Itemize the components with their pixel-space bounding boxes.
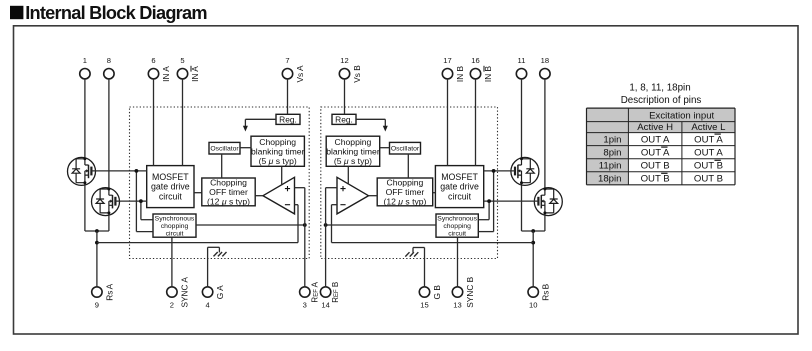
svg-text:Vs B: Vs B <box>352 65 362 83</box>
wire: pin 6 (IN A) to gate drive A <box>153 79 155 166</box>
junction: Q3 gate tap <box>492 169 496 173</box>
svg-text:OUT B: OUT B <box>641 161 670 172</box>
svg-text:OFF timer: OFF timer <box>386 187 425 197</box>
svg-text:Excitation input: Excitation input <box>649 110 714 121</box>
wire: pin 7 (Vs A) to Reg A <box>287 79 289 114</box>
svg-text:gate drive: gate drive <box>440 182 479 192</box>
dashed block B outline <box>321 107 498 259</box>
wire: Q4 source to rail B <box>544 216 546 231</box>
junction: rail B center <box>531 229 535 233</box>
svg-text:Oscillator: Oscillator <box>391 146 420 153</box>
pin 5 (top terminal, IN A) <box>177 56 200 82</box>
pin 15 (bottom terminal, G B) <box>419 285 442 310</box>
wire: oscillator B to blanking timer B <box>380 147 390 149</box>
svg-text:SYNC B: SYNC B <box>465 276 475 307</box>
svg-text:(5 μ s typ): (5 μ s typ) <box>259 156 297 166</box>
wire: sync chopping A to pin 2 (SYNC A) <box>171 237 173 287</box>
block: Chopping OFF timer (A) value 12 us typ <box>202 177 255 206</box>
wire: comparator U1 minus input to Rs A sense <box>295 205 299 243</box>
block: MOSFET gate drive circuit (B) <box>435 166 483 208</box>
wire: comparator U2 plus input to pin 14 (REF B) <box>326 188 337 287</box>
wire: gate drive B to Q4 gate <box>484 200 539 202</box>
svg-text:8pin: 8pin <box>603 148 621 159</box>
wire: oscillator A to blanking timer A <box>240 147 251 149</box>
pin 18 (top terminal) <box>540 56 550 79</box>
junction: REF B / sync B <box>324 223 328 227</box>
wire: Q4 gate line to sync chopping B <box>478 201 489 220</box>
wire: comparator U1 plus input to pin 3 (REF A) <box>295 188 305 287</box>
block: Chopping blanking timer (B) value 5 us typ <box>326 136 380 166</box>
svg-text:Vs A: Vs A <box>295 65 305 83</box>
svg-text:3: 3 <box>303 301 307 310</box>
pin 4 (bottom terminal, G A) <box>202 285 225 310</box>
pin 7 (top terminal, Vs A) <box>282 56 305 83</box>
wire: gate drive B to OFF timer B <box>433 192 436 194</box>
svg-text:MOSFET: MOSFET <box>152 172 189 182</box>
wire: sync chopping A to REF A node <box>196 224 305 226</box>
wire: blanking timer B to comparator U2 <box>347 166 349 184</box>
svg-text:MOSFET: MOSFET <box>441 172 478 182</box>
svg-text:18pin: 18pin <box>598 174 621 185</box>
pin 8 (top terminal) <box>104 56 114 79</box>
block: Reg. (A regulator) <box>276 114 300 124</box>
wire: sync chopping B to REF B node <box>326 224 436 226</box>
pin 14 (bottom terminal, REF B) <box>320 282 340 310</box>
svg-text:1pin: 1pin <box>603 135 621 146</box>
svg-text:(12 μ s typ): (12 μ s typ) <box>207 196 250 206</box>
wire: pin 17 (IN B) to gate drive B <box>447 79 449 166</box>
wire: comparator U2 minus input to Rs B sense <box>332 205 338 243</box>
svg-text:circuit: circuit <box>448 230 466 237</box>
wire: pin 8 to Q2 drain <box>108 79 110 188</box>
wire: Q2 source to rail A <box>108 216 110 231</box>
svg-text:7: 7 <box>285 56 289 65</box>
wire: OFF timer A to comparator U1 output <box>255 195 263 197</box>
junction: REF A / sync A <box>303 223 307 227</box>
svg-text:Oscillator: Oscillator <box>210 146 239 153</box>
pin 6 (top terminal, IN A) <box>148 56 171 82</box>
pin 13 (bottom terminal, SYNC B) <box>452 276 475 309</box>
svg-text:Chopping: Chopping <box>335 137 372 147</box>
svg-text:chopping: chopping <box>443 223 471 230</box>
wire: rail A to pin 9 (Rs A) <box>96 231 98 287</box>
wire: blanking timer A to comparator U1 <box>281 166 283 185</box>
wire: Q3 gate line to sync chopping B <box>478 171 493 232</box>
svg-text:circuit: circuit <box>166 230 184 237</box>
svg-text:(5 μ s typ): (5 μ s typ) <box>334 156 372 166</box>
wire: gate drive A to Q2 gate <box>115 200 146 202</box>
wire: Rs A sense feedback <box>97 242 298 244</box>
svg-text:OUT A: OUT A <box>694 148 723 159</box>
junction: rail A center <box>95 229 99 233</box>
title: Internal Block Diagram <box>10 3 207 23</box>
pin 9 (bottom terminal, Rs A) <box>92 283 115 309</box>
wire: Q2 gate line to sync chopping A <box>141 201 153 220</box>
pin 12 (top terminal, Vs B) <box>339 56 362 83</box>
svg-text:10: 10 <box>529 301 537 310</box>
pin 2 (bottom terminal, SYNC A) <box>167 277 190 310</box>
wire: oscillator B to OFF timer B <box>407 154 409 178</box>
ground symbol (A) <box>214 247 227 256</box>
svg-text:OUT B: OUT B <box>641 174 670 185</box>
wire: pin 5 (IN A bar) to gate drive A <box>182 79 184 166</box>
svg-text:1: 1 <box>83 56 87 65</box>
svg-text:G B: G B <box>432 285 442 300</box>
junction: Q2 gate tap <box>139 199 143 203</box>
svg-text:gate drive: gate drive <box>151 182 190 192</box>
svg-text:OUT B: OUT B <box>694 161 723 172</box>
comparator U2 (current sense, B) <box>337 177 369 214</box>
pin 16 (top terminal, IN B) <box>470 56 493 82</box>
svg-text:Internal Block Diagram: Internal Block Diagram <box>25 3 207 23</box>
svg-text:OUT A: OUT A <box>641 148 670 159</box>
dashed block A outline <box>130 107 310 259</box>
wire: Reg B output with arrow <box>356 119 388 131</box>
svg-text:OUT B: OUT B <box>694 174 723 185</box>
svg-text:RsA: RsA <box>104 283 114 300</box>
wire: Reg A output with arrow <box>243 119 276 131</box>
pin 17 (top terminal, IN B) <box>442 56 465 82</box>
wire: pin 1 to Q1 drain <box>84 79 86 157</box>
block: Chopping blanking timer (A) value 5 us typ <box>251 136 305 166</box>
pin 3 (bottom terminal, REF A) <box>300 281 320 309</box>
junction: Rs A sense tap <box>95 241 99 245</box>
pin description table header note <box>621 83 702 106</box>
block: Oscillator (A) <box>209 142 240 154</box>
svg-text:blanking timer: blanking timer <box>251 146 305 156</box>
wire: gate drive B to Q3 gate <box>484 170 515 172</box>
svg-text:17: 17 <box>443 56 451 65</box>
pin description table <box>587 108 736 185</box>
wire: Q1 gate line to sync chopping A <box>136 171 153 232</box>
svg-text:14: 14 <box>321 301 329 310</box>
svg-text:12: 12 <box>340 56 348 65</box>
svg-text:11pin: 11pin <box>599 161 622 172</box>
block: MOSFET gate drive circuit (A) <box>147 166 194 208</box>
svg-text:1, 8, 11, 18pin: 1, 8, 11, 18pin <box>629 83 690 94</box>
pin 10 (bottom terminal, Rs B) <box>528 283 551 309</box>
junction: Q1 gate tap <box>135 169 139 173</box>
power MOSFET Q4 (OUT B low side) <box>534 188 562 216</box>
svg-text:Reg.: Reg. <box>335 114 353 124</box>
svg-text:2: 2 <box>170 301 174 310</box>
svg-text:Chopping: Chopping <box>210 177 247 187</box>
wire: OFF timer B to comparator U2 output <box>369 195 378 197</box>
svg-text:OUT A: OUT A <box>641 135 670 146</box>
comparator U1 (current sense, A) <box>263 177 295 214</box>
svg-text:5: 5 <box>180 56 184 65</box>
wire: pin 15 (G B) to ground <box>413 248 425 287</box>
wire: pin 4 (G A) to ground <box>208 247 220 286</box>
wire: sync chopping B to pin 13 (SYNC B) <box>457 237 459 287</box>
svg-text:SYNC A: SYNC A <box>179 277 189 308</box>
svg-text:11: 11 <box>518 56 526 65</box>
wire: source rail A <box>85 230 109 232</box>
svg-text:18: 18 <box>541 56 549 65</box>
power MOSFET Q2 (OUT A low side) <box>92 188 120 216</box>
wire: gate drive A to OFF timer A <box>194 192 202 194</box>
svg-text:(12 μ s typ): (12 μ s typ) <box>383 196 426 206</box>
junction: Q4 gate tap <box>487 199 491 203</box>
power MOSFET Q3 (OUT B high side) <box>511 157 539 185</box>
wire: Q1 source to rail A <box>84 185 86 231</box>
svg-text:IN B: IN B <box>455 65 465 82</box>
svg-text:blanking timer: blanking timer <box>326 146 380 156</box>
power MOSFET Q1 (OUT A high side) <box>68 157 96 185</box>
wire: gate drive A to Q1 gate <box>91 170 146 172</box>
svg-text:Description of pins: Description of pins <box>621 95 702 106</box>
svg-text:OUT A: OUT A <box>694 135 723 146</box>
wire: rail B to pin 10 (Rs B) <box>532 231 534 287</box>
svg-text:circuit: circuit <box>448 191 472 201</box>
svg-text:RsB: RsB <box>541 283 551 300</box>
svg-text:Chopping: Chopping <box>387 177 424 187</box>
svg-text:G A: G A <box>215 285 225 299</box>
block: Chopping OFF timer (B) value 12 us typ <box>377 177 433 206</box>
svg-text:IN A: IN A <box>161 66 171 82</box>
pin 11 (top terminal) <box>516 56 526 79</box>
svg-text:15: 15 <box>420 301 428 310</box>
block: Reg. (B regulator) <box>332 114 356 124</box>
wire: pin 18 to Q4 drain <box>544 79 546 188</box>
svg-text:4: 4 <box>205 301 209 310</box>
svg-text:OFF timer: OFF timer <box>209 187 248 197</box>
wire: Q3 source to rail B <box>521 185 523 231</box>
svg-text:Active H: Active H <box>637 122 673 133</box>
svg-text:Synchronous: Synchronous <box>155 216 195 223</box>
svg-text:Chopping: Chopping <box>259 137 296 147</box>
svg-text:13: 13 <box>453 301 461 310</box>
wire: Rs B sense feedback <box>332 242 534 244</box>
svg-text:Active L: Active L <box>691 122 726 133</box>
svg-text:8: 8 <box>107 56 111 65</box>
pin 1 (top terminal) <box>80 56 90 79</box>
block: Oscillator (B) <box>390 142 421 154</box>
ground symbol (B) <box>405 248 418 257</box>
junction: Rs B sense tap <box>531 241 535 245</box>
block: Synchronous chopping circuit (B) <box>436 214 478 237</box>
svg-text:circuit: circuit <box>159 191 183 201</box>
svg-text:6: 6 <box>151 56 155 65</box>
wire: pin 16 (IN B bar) to gate drive B <box>475 79 477 166</box>
svg-text:Synchronous: Synchronous <box>437 216 477 223</box>
wire: pin 11 to Q3 drain <box>521 79 523 157</box>
wire: pin 12 (Vs B) to Reg B <box>344 79 346 114</box>
svg-text:Reg.: Reg. <box>279 114 297 124</box>
wire: oscillator A to OFF timer A <box>221 154 223 178</box>
svg-text:16: 16 <box>471 56 479 65</box>
wire: source rail B <box>522 230 545 232</box>
svg-text:9: 9 <box>95 301 99 310</box>
block: Synchronous chopping circuit (A) <box>153 214 196 237</box>
svg-text:chopping: chopping <box>161 223 189 230</box>
